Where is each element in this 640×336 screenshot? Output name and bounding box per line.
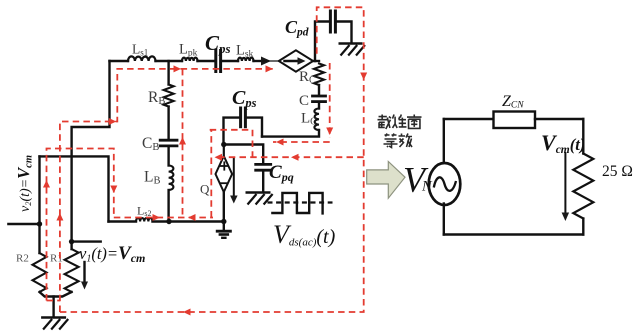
red arrow right (bus) bbox=[153, 214, 161, 221]
wire Cps2 right to Lc-bottom net bbox=[247, 118, 262, 137]
text thevenin-equivalent (dai wei nan) bbox=[378, 115, 391, 130]
resistor RB bbox=[167, 61, 169, 85]
red arrow left (bottom) bbox=[183, 309, 191, 316]
svg-text:Q: Q bbox=[200, 182, 210, 197]
wire bbox=[198, 60, 215, 62]
red dashed line y142 bbox=[273, 141, 330, 143]
svg-text:R1: R1 bbox=[50, 253, 63, 265]
wire Q-node to Cpq bbox=[224, 145, 263, 164]
wire v1 stub bbox=[72, 240, 101, 242]
red arrow down (x329) bbox=[326, 128, 333, 136]
wire thevenin left bbox=[443, 119, 445, 162]
red arrow right (corner x117) bbox=[109, 118, 117, 125]
red arrow up (x182) bbox=[179, 137, 186, 145]
red arrow down (x113) bbox=[110, 186, 117, 194]
wire Cpd riser bbox=[315, 22, 329, 62]
red dashed Q left vertical bbox=[210, 130, 212, 218]
wire thevenin right top bbox=[582, 119, 584, 154]
red dashed Rc column vertical bbox=[329, 63, 331, 138]
red arrow left (y142) bbox=[276, 139, 284, 146]
impedance ZCN box bbox=[494, 112, 536, 129]
red dashed bus overlay bbox=[114, 217, 213, 219]
wire bbox=[318, 103, 320, 109]
svg-text:25 Ω: 25 Ω bbox=[602, 163, 633, 180]
ground (main, bottom-left) bbox=[41, 316, 66, 318]
red arrow up (x46) bbox=[43, 180, 50, 188]
wire LB to bus bbox=[167, 190, 169, 222]
ground (under Cpd) bbox=[339, 42, 363, 44]
node Q-bus junction bbox=[221, 219, 226, 224]
svg-text:R2: R2 bbox=[16, 253, 29, 265]
resistor R1 bbox=[65, 249, 79, 292]
wire Cps2 left riser bbox=[224, 118, 240, 145]
wire thevenin right bottom bbox=[582, 219, 584, 235]
inductor Ls1 bbox=[128, 56, 156, 61]
thevenin equivalence block arrow bbox=[367, 162, 405, 199]
red arrow right (top rail b) bbox=[266, 65, 274, 72]
inductor Ls2 bbox=[136, 218, 153, 221]
inductor Lpk bbox=[182, 58, 198, 61]
node Q top dot bbox=[221, 142, 226, 147]
svg-text:C: C bbox=[299, 93, 309, 109]
text (deng xiao) bbox=[384, 134, 398, 148]
red arrow down (x363) bbox=[360, 73, 367, 81]
wire Cpq to ground bbox=[262, 171, 264, 191]
waveform Vds square wave bbox=[272, 193, 322, 214]
wire D1 to node bbox=[313, 60, 319, 62]
red dashed closing stub bbox=[47, 300, 60, 302]
ground (under Cpq) bbox=[246, 191, 271, 193]
capacitor Cpd bbox=[329, 11, 332, 32]
source VN circle bbox=[429, 163, 461, 205]
inductor Lsk bbox=[238, 58, 254, 61]
arrow Q current direction bbox=[233, 158, 235, 197]
resistor 25ohm bbox=[573, 154, 593, 219]
resistor R2 bbox=[33, 253, 47, 292]
wire top rail left segment bbox=[110, 60, 129, 62]
wire bbox=[222, 60, 238, 62]
node R2 input dot bbox=[37, 221, 42, 226]
wire left step net1 bbox=[72, 61, 110, 249]
wire Q bottom stem bbox=[223, 192, 225, 222]
arrow Vcm direction bbox=[564, 153, 566, 214]
wire bbox=[167, 147, 169, 165]
inductor LB bbox=[169, 166, 174, 191]
wire bus cont bbox=[153, 220, 224, 222]
wire Q ground stem bbox=[223, 222, 225, 231]
red dashed line y157 from right bbox=[216, 156, 364, 158]
resistor Rc bbox=[314, 64, 324, 86]
red dashed path v2 loop bbox=[60, 69, 274, 312]
red arrow left (bus) bbox=[188, 214, 196, 221]
capacitor Cpq bbox=[256, 163, 271, 166]
red arrow left (y157 a) bbox=[215, 154, 223, 161]
red arrow left (y157 b) bbox=[291, 154, 299, 161]
dependent source Q (diamond + -) bbox=[223, 145, 225, 156]
node LB-bus junction bbox=[166, 219, 171, 224]
wire thevenin bottom bbox=[444, 233, 584, 235]
wire with current arrow into D1 bbox=[254, 60, 263, 62]
capacitor C bbox=[313, 95, 326, 98]
capacitor CB bbox=[160, 139, 177, 142]
red dashed bottom return bbox=[60, 7, 364, 312]
ground (under Q, bar style) bbox=[216, 230, 232, 233]
wire bbox=[318, 85, 320, 95]
wire bottom bus bbox=[109, 220, 137, 222]
wire R2 column bbox=[38, 156, 40, 253]
wire Cpd to ground bbox=[337, 22, 352, 43]
wire thevenin top-left bbox=[444, 118, 494, 120]
wire bbox=[156, 60, 183, 62]
inductor Lc bbox=[314, 109, 319, 131]
wire left step net2 bbox=[40, 156, 109, 221]
wire bbox=[167, 107, 169, 139]
arrow v1 direction bbox=[83, 262, 85, 283]
red dashed path left R2 loop bbox=[47, 149, 114, 301]
wire v2 stub bbox=[8, 223, 39, 225]
capacitor Cps (lower) bbox=[239, 108, 242, 127]
wire Lc bottom to Cps2 corner bbox=[262, 130, 319, 137]
red arrow up (x60) bbox=[56, 213, 63, 221]
capacitor Cps primary-secondary (top) bbox=[214, 51, 217, 72]
red dashed RB column vertical bbox=[182, 69, 184, 218]
node v1 junction dot bbox=[69, 239, 74, 244]
red dashed Q box top bbox=[210, 130, 253, 157]
red arrow right (top rail a) bbox=[174, 65, 182, 72]
wire thevenin left bottom bbox=[443, 204, 445, 235]
dependent source D1 (diamond with right arrow) bbox=[279, 50, 313, 71]
wire thevenin top-right bbox=[535, 118, 583, 120]
wire resistor bottoms join bbox=[40, 292, 72, 297]
